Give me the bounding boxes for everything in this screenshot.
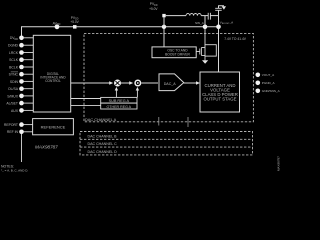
svg-text:+5.0V: +5.0V [70, 20, 79, 24]
wire VBOOST node down to pin [218, 16, 220, 25]
block reference [33, 119, 74, 135]
svg-text:AL/SET: AL/SET [6, 102, 18, 106]
ground [204, 56, 206, 60]
svg-text:DAC CHANNEL D: DAC CHANNEL D [88, 150, 118, 154]
svg-text:SCLK: SCLK [9, 58, 19, 62]
wire VBOOST pin down to class d block [218, 29, 220, 72]
block class d power stage [200, 72, 240, 112]
svg-text:AVDD: AVDD [53, 22, 61, 27]
wire: main AVDD/PVDD top rail [22, 27, 219, 37]
block oscillator / boost driver [152, 47, 196, 58]
capacitor C (vertical branch) [215, 7, 222, 9]
svg-text:DAC CHANNEL C: DAC CHANNEL C [88, 142, 118, 146]
capacitor C (series) [207, 13, 209, 20]
wire audio signal to multiplier [71, 82, 112, 84]
node ties from channel A to shared rows [158, 117, 160, 126]
node: rail junction feeding boost [162, 25, 166, 29]
output pins [255, 73, 260, 78]
modulator circle [134, 80, 141, 87]
pin DVDD [19, 36, 24, 41]
wire reg to modulator (up arrow) [136, 89, 138, 97]
svg-text:AUX: AUX [11, 109, 19, 113]
pin PVDD square on rail [73, 25, 77, 29]
svg-text:SUB REG A: SUB REG A [109, 99, 130, 103]
wire SW node down [204, 16, 206, 25]
wire square pin to inductor [166, 15, 186, 17]
wire reg to multiplier (up arrow) [115, 89, 117, 97]
transistor Q1 boost FET [196, 51, 200, 53]
pin VBOOST_A [216, 25, 221, 30]
wire drain loop [205, 45, 216, 56]
register boxes [101, 97, 137, 103]
wire cap to VBOOST node [210, 15, 218, 17]
wire coil to cap [201, 15, 208, 17]
svg-text:7.4V TO 41.4V: 7.4V TO 41.4V [224, 37, 246, 41]
svg-text:DAC CHANNEL A: DAC CHANNEL A [85, 117, 117, 122]
svg-text:LRCK: LRCK [9, 51, 19, 55]
left pins [19, 43, 24, 134]
svg-text:PGND_A: PGND_A [262, 81, 276, 85]
dashed box DAC CHANNEL A [84, 33, 253, 121]
svg-text:OUTPUT STAGE: OUTPUT STAGE [203, 97, 236, 102]
svg-text:DGND: DGND [8, 44, 19, 48]
svg-text:SW_A: SW_A [195, 21, 205, 25]
wires block to reg boxes [71, 98, 101, 100]
svg-text:BCLK: BCLK [9, 65, 19, 69]
pin +5V square [162, 14, 165, 17]
multiplier (volume) [114, 80, 121, 87]
svg-text:SYNC: SYNC [9, 73, 19, 77]
svg-text:+5.0V: +5.0V [149, 7, 158, 11]
wire multiplier to modulator [121, 82, 131, 84]
wire REF IN down [21, 134, 23, 162]
wire junction up to +5V square pin [163, 17, 165, 27]
wire cap up and over with arrow [219, 6, 225, 9]
wire SW pin down to FET drain loop [204, 29, 206, 45]
left pin labels [4, 44, 19, 135]
dashed rows DAC CHANNEL B/C/D [80, 132, 253, 155]
svg-text:DVDD: DVDD [10, 36, 18, 41]
svg-text:BOOST DRIVER: BOOST DRIVER [165, 52, 190, 56]
DAC A pentagon [159, 74, 184, 91]
svg-text:MAX98787: MAX98787 [35, 145, 58, 150]
svg-text:GND/SNS_A: GND/SNS_A [262, 89, 280, 93]
svg-text:REF IN: REF IN [7, 130, 19, 134]
wire modulator to DAC [141, 82, 158, 84]
svg-text:OL/SA: OL/SA [8, 87, 19, 91]
pin SW_A [203, 25, 208, 30]
svg-text:DAC_A: DAC_A [164, 82, 177, 86]
svg-text:SDIN: SDIN [10, 80, 19, 84]
svg-text:OTHER REG A: OTHER REG A [107, 105, 132, 109]
inductor L (boost coil) [186, 13, 201, 15]
svg-text:REPORT: REPORT [4, 123, 18, 127]
svg-text:*_ = A, B, C, AND D.: *_ = A, B, C, AND D. [1, 168, 28, 172]
left pin column wires [24, 38, 34, 132]
svg-text:VBOOST_A: VBOOST_A [220, 20, 233, 25]
svg-text:CONTROL: CONTROL [45, 79, 61, 83]
wire rail junction down to osc block [163, 29, 165, 47]
block U1 digital audio interface [33, 35, 70, 112]
pin AVDD on rail [55, 24, 60, 29]
svg-text:MAX98787: MAX98787 [277, 156, 281, 171]
svg-text:DAC CHANNEL B: DAC CHANNEL B [88, 134, 118, 138]
svg-text:VOUT_A: VOUT_A [262, 73, 275, 77]
wire DAC to class d [184, 82, 199, 84]
svg-text:REFERENCE: REFERENCE [41, 125, 66, 130]
svg-text:S/MUX: S/MUX [7, 94, 18, 98]
